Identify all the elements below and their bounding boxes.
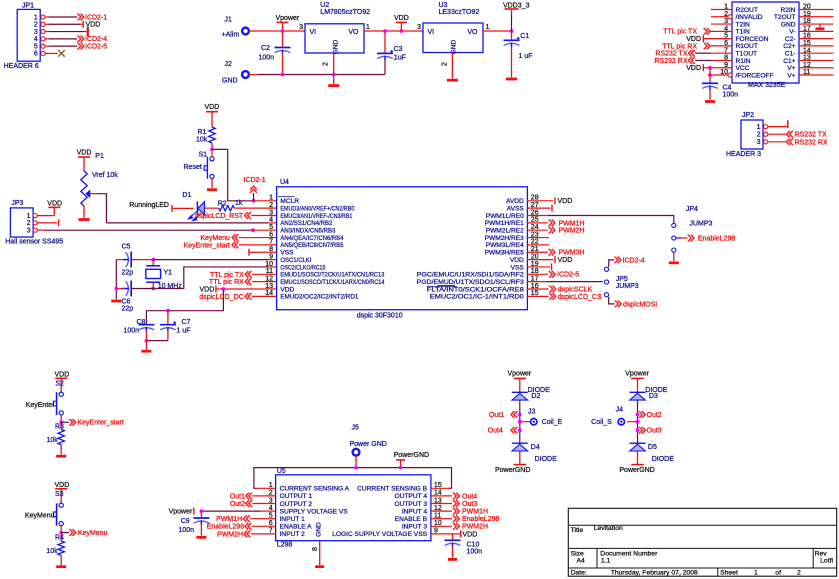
U1 pin18 GND stub xyxy=(799,23,834,25)
svg-text:PWM1H: PWM1H xyxy=(462,509,488,516)
wire C7 bottom to C8 bottom xyxy=(146,340,168,342)
wire pin17 to JP5 xyxy=(527,281,547,283)
svg-text:1uF: 1uF xyxy=(394,54,406,61)
off-page RS232 TX at JP2 xyxy=(786,131,789,138)
svg-text:INPUT 2: INPUT 2 xyxy=(280,531,305,538)
svg-text:AN2/SS1/CN4/RB2: AN2/SS1/CN4/RB2 xyxy=(280,220,332,227)
svg-text:100n: 100n xyxy=(723,92,739,99)
svg-text:R2: R2 xyxy=(218,200,227,207)
ground below S1 xyxy=(207,188,217,191)
svg-text:of: of xyxy=(775,569,781,576)
svg-text:KeyEnter: KeyEnter xyxy=(26,402,55,409)
svg-text:ENABLE B: ENABLE B xyxy=(395,516,428,523)
off-page Out3 at J4 xyxy=(636,428,640,432)
off-page EnableL298 at U5 pin11 xyxy=(431,518,452,520)
off-page EnableL298 at JP4 xyxy=(688,235,691,242)
svg-text:U5: U5 xyxy=(277,468,286,475)
svg-text:R2OUT: R2OUT xyxy=(736,7,758,14)
svg-text:PWM2H: PWM2H xyxy=(559,228,585,235)
svg-text:VDD: VDD xyxy=(686,36,701,43)
svg-text:C8: C8 xyxy=(137,319,146,326)
svg-text:VDD: VDD xyxy=(47,200,62,207)
JP1 pin 5 circle xyxy=(41,44,45,48)
diode D5 xyxy=(630,442,646,444)
wire J1 to U2 VI xyxy=(249,30,305,32)
svg-text:SUPPLY VOLTAGE VS: SUPPLY VOLTAGE VS xyxy=(280,508,349,515)
svg-text:Out4: Out4 xyxy=(488,428,503,435)
svg-text:1.1: 1.1 xyxy=(601,557,611,564)
svg-text:Out3: Out3 xyxy=(462,501,477,508)
capacitor C8 xyxy=(145,311,147,325)
svg-text:C1+: C1+ xyxy=(783,58,795,65)
ground at pin18 xyxy=(819,24,821,27)
power VDD at pin20 xyxy=(527,259,553,261)
U1 pin10 stub with bubble xyxy=(711,74,728,76)
svg-text:DIODE: DIODE xyxy=(535,456,558,463)
svg-text:S2: S2 xyxy=(55,380,64,387)
wire JP1-2 to VDD xyxy=(45,23,49,25)
wire Vpower to U5 pin4 xyxy=(201,510,260,512)
svg-text:4: 4 xyxy=(34,36,38,43)
svg-text:R4: R4 xyxy=(55,534,64,541)
svg-text:FLTA/INT0/SCK1/OCFA/RE8: FLTA/INT0/SCK1/OCFA/RE8 xyxy=(427,286,524,293)
LED D1 xyxy=(196,201,198,215)
svg-text:Title: Title xyxy=(571,527,584,534)
svg-text:INPUT 4: INPUT 4 xyxy=(402,508,427,515)
off-page KeyMenu xyxy=(61,532,69,534)
svg-text:1: 1 xyxy=(757,124,761,131)
power bar AVSS at pin27 xyxy=(527,207,550,209)
svg-text:Y1: Y1 xyxy=(164,269,173,276)
svg-text:KeyMenu: KeyMenu xyxy=(200,235,230,242)
capacitor C2 xyxy=(282,31,284,47)
svg-text:C3: C3 xyxy=(394,46,403,53)
svg-text:ICD2-5: ICD2-5 xyxy=(85,44,107,51)
ground below R3 xyxy=(56,455,66,458)
svg-text:Vpower: Vpower xyxy=(508,371,532,378)
off-page ICD2-5 at pin18 xyxy=(527,273,548,275)
wire P1 wiper to pin4 row xyxy=(90,193,96,195)
wire J5 stem xyxy=(355,456,357,468)
off-page PWM2H at U5 pin10 xyxy=(431,525,452,527)
underline EMUD pin17 xyxy=(438,284,456,286)
svg-text:dspic 30F3010: dspic 30F3010 xyxy=(357,312,403,319)
svg-text:RS232 RX: RS232 RX xyxy=(795,139,828,146)
diode D4 xyxy=(512,442,528,444)
svg-text:EMUD3/AN0/VREF+/CN2/RB0: EMUD3/AN0/VREF+/CN2/RB0 xyxy=(280,205,354,212)
svg-text:EMUC3/AN1/VREF-/CN3/RB1: EMUC3/AN1/VREF-/CN3/RB1 xyxy=(280,213,352,220)
svg-text:KeyEnter_start: KeyEnter_start xyxy=(184,242,230,249)
off-page Out2 at J4 xyxy=(636,413,640,417)
svg-text:PWM1H: PWM1H xyxy=(559,220,585,227)
wire JP1-3 to VDD bar xyxy=(45,31,49,33)
ground below C10 xyxy=(448,558,457,561)
title block frame xyxy=(568,508,836,576)
svg-text:LM7805czTO92: LM7805czTO92 xyxy=(320,9,370,16)
svg-text:11: 11 xyxy=(266,268,273,275)
svg-text:Thursday, February 07, 2008: Thursday, February 07, 2008 xyxy=(611,569,698,576)
capacitor C6 xyxy=(126,281,129,296)
svg-text:CURRENT SENSING A: CURRENT SENSING A xyxy=(280,486,350,493)
svg-text:VDD: VDD xyxy=(55,371,70,378)
svg-text:RunningLED: RunningLED xyxy=(129,202,169,209)
off-page ICD2-1 xyxy=(77,14,80,21)
U3 pin2 GND stem xyxy=(451,53,453,79)
svg-text:INPUT 3: INPUT 3 xyxy=(402,524,427,531)
capacitor C7 xyxy=(167,311,169,325)
svg-text:1 uF: 1 uF xyxy=(177,327,191,334)
svg-text:1: 1 xyxy=(27,213,31,220)
svg-text:8: 8 xyxy=(269,246,273,253)
wire JP5-1 to ICD2-4 xyxy=(609,260,615,267)
U5 pin8 GND stem xyxy=(319,541,321,565)
power bar at JP1-3 xyxy=(87,27,89,36)
ground below C4 xyxy=(705,100,715,103)
svg-text:4: 4 xyxy=(269,217,273,224)
svg-text:C2+: C2+ xyxy=(783,43,795,50)
svg-text:2: 2 xyxy=(757,132,761,139)
svg-text:R1: R1 xyxy=(198,129,207,136)
overline MCLR xyxy=(278,196,295,198)
svg-text:R1OUT: R1OUT xyxy=(736,43,758,50)
svg-text:P1: P1 xyxy=(95,153,104,160)
svg-text:+Alim: +Alim xyxy=(222,32,240,39)
ground below U3 xyxy=(447,79,458,82)
svg-text:OUTPUT 2: OUTPUT 2 xyxy=(280,501,313,508)
svg-text:EnableL298: EnableL298 xyxy=(207,524,244,531)
JP1 pin 4 circle xyxy=(41,37,45,41)
junction crystal bottom xyxy=(151,287,155,291)
svg-text:10k: 10k xyxy=(46,548,58,555)
svg-text:JP3: JP3 xyxy=(11,200,23,207)
wire JP3-3 stub xyxy=(37,229,45,231)
svg-text:VI: VI xyxy=(310,29,317,36)
svg-text:S3: S3 xyxy=(55,491,64,498)
svg-text:Out1: Out1 xyxy=(489,412,504,419)
svg-text:1 uF: 1 uF xyxy=(519,53,533,60)
svg-text:T1IN: T1IN xyxy=(736,29,751,36)
ground below U5 pin8 xyxy=(315,565,324,568)
svg-text:VDD: VDD xyxy=(55,482,70,489)
power VDD at JP1-2 xyxy=(82,21,84,28)
svg-text:JP2: JP2 xyxy=(742,112,754,119)
junction KeyEnter_start xyxy=(59,420,63,424)
off-page ICD2-5 xyxy=(77,43,80,50)
svg-text:PWM2H: PWM2H xyxy=(462,524,488,531)
svg-text:VDD: VDD xyxy=(686,65,701,72)
wire D1 to R2 xyxy=(205,207,219,209)
svg-text:C2: C2 xyxy=(261,45,270,52)
svg-text:MCLR: MCLR xyxy=(280,198,299,205)
junction R1/S1 xyxy=(210,148,214,152)
off-page dspicLCD_CS at pin15 xyxy=(527,295,548,297)
svg-text:100n: 100n xyxy=(179,527,195,534)
JP3 pin circle xyxy=(33,221,37,225)
svg-text:S1: S1 xyxy=(199,152,208,159)
svg-text:R1IN: R1IN xyxy=(736,58,751,65)
wire JP2-3 RS232 RX xyxy=(768,141,786,143)
svg-text:VDD: VDD xyxy=(77,150,92,157)
off-page PWM1H at pin25 xyxy=(527,222,547,224)
wire R1 to U4 MCLR xyxy=(212,149,254,200)
svg-text:10k: 10k xyxy=(196,137,208,144)
svg-text:D1: D1 xyxy=(182,192,191,199)
svg-text:/INVALID: /INVALID xyxy=(736,14,763,21)
wire P1 wiper to U4 pin4 xyxy=(106,222,268,224)
svg-text:dspicMOSI: dspicMOSI xyxy=(623,301,657,308)
svg-text:HEADER 6: HEADER 6 xyxy=(4,63,39,70)
JP2 pin circle xyxy=(764,140,768,144)
svg-text:C2-: C2- xyxy=(785,36,796,43)
connector JP1 xyxy=(17,9,40,61)
svg-text:100n: 100n xyxy=(467,548,483,555)
svg-text:2: 2 xyxy=(442,62,449,66)
svg-text:J3: J3 xyxy=(528,409,536,416)
PowerGND below D4 xyxy=(519,451,521,464)
svg-text:Out1: Out1 xyxy=(230,493,245,500)
wire VDD to C7 C8 xyxy=(146,289,223,311)
svg-text:OUTPUT 4: OUTPUT 4 xyxy=(395,493,428,500)
svg-text:22p: 22p xyxy=(122,306,134,313)
svg-text:J2: J2 xyxy=(225,61,233,68)
JP3 pin circle xyxy=(33,214,37,218)
svg-text:8: 8 xyxy=(312,547,319,551)
svg-text:C10: C10 xyxy=(467,541,480,548)
off-page dspicLCD_RST at pin3 xyxy=(244,212,247,219)
off-page PWM3H at pin21 xyxy=(527,251,547,253)
svg-text:Out3: Out3 xyxy=(647,428,662,435)
resistor R1 xyxy=(209,127,215,143)
capacitor C4 xyxy=(702,82,718,84)
wire JP2-2 RS232 TX xyxy=(768,133,786,135)
svg-text:3: 3 xyxy=(269,209,273,216)
capacitor C9 xyxy=(200,511,202,518)
JP1 pin 2 circle xyxy=(41,22,45,26)
JP2 pin circle xyxy=(764,125,768,129)
svg-text:3: 3 xyxy=(757,139,761,146)
junction KeyMenu xyxy=(59,531,63,535)
svg-text:JP4: JP4 xyxy=(686,206,698,213)
off-page TTL pic TX at pin11 xyxy=(245,271,248,278)
svg-text:GND: GND xyxy=(333,39,340,54)
svg-text:Vpower: Vpower xyxy=(169,509,193,516)
svg-text:VCC: VCC xyxy=(736,65,750,72)
wire D3 to J4 node xyxy=(637,400,639,443)
svg-text:1: 1 xyxy=(754,569,758,576)
svg-text:Out2: Out2 xyxy=(647,412,662,419)
wire crystal to OSC2 xyxy=(132,267,268,289)
off-page KeyEnter_start at pin7 xyxy=(232,242,235,249)
svg-text:T2IN: T2IN xyxy=(736,21,751,28)
svg-text:T2OUT: T2OUT xyxy=(774,14,796,21)
svg-text:C7: C7 xyxy=(182,319,191,326)
svg-text:1: 1 xyxy=(269,195,273,202)
off-page PWM1H at U5 pin12 xyxy=(431,510,452,512)
svg-text:Sheet: Sheet xyxy=(720,569,738,576)
svg-text:AN3/INDX/CN5/RB3: AN3/INDX/CN5/RB3 xyxy=(280,228,335,235)
svg-text:ICD2-1: ICD2-1 xyxy=(85,14,107,21)
svg-text:PWM2H/RE3: PWM2H/RE3 xyxy=(485,235,525,242)
svg-text:Out4: Out4 xyxy=(462,493,477,500)
svg-text:5: 5 xyxy=(269,224,273,231)
diode D2 xyxy=(512,391,528,393)
U5 pin15 stub xyxy=(431,487,452,489)
svg-text:VSS: VSS xyxy=(511,264,525,271)
svg-text:ICD2-4: ICD2-4 xyxy=(85,36,107,43)
svg-text:A4: A4 xyxy=(577,557,586,564)
svg-text:GND: GND xyxy=(781,21,796,28)
JP3 pin circle xyxy=(33,228,37,232)
ground below R4 xyxy=(56,565,66,568)
svg-text:2: 2 xyxy=(797,569,801,576)
svg-text:T1OUT: T1OUT xyxy=(736,50,758,57)
wire to LED D1 xyxy=(172,207,194,209)
wire JP2-1 to power bar xyxy=(768,126,788,128)
IC U5 L298 xyxy=(276,475,431,541)
svg-text:PWM1H: PWM1H xyxy=(216,516,242,523)
power bar VSS at pin8 xyxy=(248,249,250,256)
capacitor C10 xyxy=(452,534,454,540)
svg-text:VDD: VDD xyxy=(280,286,294,293)
wire JP5-3 to dspicMOSI xyxy=(609,297,615,304)
wire U3 VO to VDD3_3 xyxy=(483,30,512,32)
svg-text:LE33czTO92: LE33czTO92 xyxy=(439,9,480,16)
svg-text:100n: 100n xyxy=(259,55,275,62)
IC U1 MAX3235E xyxy=(732,2,799,83)
wire JP1-5 to ICD2-5 xyxy=(45,45,49,47)
svg-text:C1-: C1- xyxy=(785,50,796,57)
svg-text:FORCEON: FORCEON xyxy=(736,36,769,43)
svg-text:2: 2 xyxy=(269,202,273,209)
svg-text:1: 1 xyxy=(366,24,370,31)
off-page ICD2-4 at JP5 xyxy=(615,257,618,264)
svg-text:PWM1H/RE1: PWM1H/RE1 xyxy=(485,220,525,227)
svg-text:EnableL298: EnableL298 xyxy=(462,516,499,523)
svg-text:DIODE: DIODE xyxy=(652,456,675,463)
svg-text:VO: VO xyxy=(348,29,359,36)
svg-text:22p: 22p xyxy=(122,269,134,276)
off-page dspicMOSI at JP5 xyxy=(615,301,618,308)
svg-text:dspicLCD_CS: dspicLCD_CS xyxy=(558,294,602,301)
svg-text:6: 6 xyxy=(34,51,38,58)
power VDD at U5 pin9 xyxy=(431,533,461,535)
svg-text:Hall sensor SS495: Hall sensor SS495 xyxy=(5,239,63,246)
diode D3 xyxy=(630,391,646,393)
svg-text:2: 2 xyxy=(34,22,38,29)
svg-text:C5: C5 xyxy=(122,244,131,251)
svg-text:PWM1L/RE0: PWM1L/RE0 xyxy=(486,213,524,220)
svg-text:GND: GND xyxy=(451,39,458,54)
svg-text:RS232 RX: RS232 RX xyxy=(654,58,687,65)
svg-text:VDD: VDD xyxy=(510,257,524,264)
connector JP3 Hall sensor xyxy=(10,208,33,237)
U1 pin3 stub xyxy=(711,23,732,25)
power bar at JP3-2 xyxy=(58,219,60,226)
wire OSC1 row xyxy=(132,259,153,261)
svg-text:KeyMenu: KeyMenu xyxy=(78,530,108,537)
svg-text:V-: V- xyxy=(789,29,795,36)
svg-text:MAX 3235E: MAX 3235E xyxy=(748,82,786,89)
svg-text:3: 3 xyxy=(417,24,421,31)
wire VCC to C4 xyxy=(709,68,711,83)
svg-text:dspicLCD_RST: dspicLCD_RST xyxy=(195,213,244,220)
svg-text:PWM3H/RE5: PWM3H/RE5 xyxy=(485,250,525,257)
capacitor C3 xyxy=(384,31,386,53)
svg-text:C9: C9 xyxy=(181,518,190,525)
svg-text:AVDD: AVDD xyxy=(506,198,524,205)
svg-text:EMUC1/SOSCO/T1CK/U1ARX/CN0/RC1: EMUC1/SOSCO/T1CK/U1ARX/CN0/RC14 xyxy=(280,279,384,286)
svg-text:10k: 10k xyxy=(47,437,59,444)
svg-text:D5: D5 xyxy=(648,444,657,451)
power bar at JP2-1 xyxy=(787,120,789,128)
capacitor C1 xyxy=(511,31,513,40)
svg-text:Vref 10k: Vref 10k xyxy=(92,172,118,179)
overline FLTA INT0 pin16 xyxy=(427,285,457,287)
svg-text:EMUD1/SOSCI/T2CK/U1ATX/CN1/RC1: EMUD1/SOSCI/T2CK/U1ATX/CN1/RC13 xyxy=(280,272,384,279)
JP2 pin circle xyxy=(764,132,768,136)
svg-text:PWM3H: PWM3H xyxy=(559,250,585,257)
svg-text:U3: U3 xyxy=(439,2,448,9)
svg-text:VDD: VDD xyxy=(200,287,215,294)
svg-text:Coil_S: Coil_S xyxy=(591,419,612,426)
svg-text:13: 13 xyxy=(265,283,273,290)
resistor R2 xyxy=(219,205,235,210)
ground below C9 xyxy=(196,536,206,539)
svg-text:PGC/EMUC/U1RX/SDI1/SDA/RF2: PGC/EMUC/U1RX/SDI1/SDA/RF2 xyxy=(417,272,524,279)
wire JP3-3 to U4 pin5 xyxy=(45,229,253,231)
svg-text:C4: C4 xyxy=(723,85,732,92)
svg-text:EnableL298: EnableL298 xyxy=(698,236,735,243)
regulator U3 LE33 xyxy=(423,23,483,53)
svg-text:9: 9 xyxy=(269,253,273,260)
off-page Out1 at J3 xyxy=(518,413,522,417)
off-page dspicLCD_DC at pin14 xyxy=(245,293,248,300)
svg-text:ENABLE A: ENABLE A xyxy=(280,524,312,531)
off-page Out4 at U5 pin14 xyxy=(431,495,452,497)
svg-text:AVSS: AVSS xyxy=(507,205,525,212)
svg-text:Out2: Out2 xyxy=(230,501,245,508)
off-page dspicSCLK at pin16 xyxy=(527,288,548,290)
svg-text:VI: VI xyxy=(428,29,435,36)
svg-text:Vpower: Vpower xyxy=(276,15,300,22)
U5 pin1 stub xyxy=(257,487,275,489)
wire JP3-1 xyxy=(37,215,54,217)
ground below C1 xyxy=(506,78,517,81)
wire pin26 to JP4 xyxy=(527,215,547,217)
svg-text:JP1: JP1 xyxy=(22,3,34,10)
svg-text:VDD: VDD xyxy=(558,198,573,205)
svg-text:PWM2L/RE2: PWM2L/RE2 xyxy=(486,228,524,235)
power VDD at pin28 xyxy=(527,200,553,202)
svg-text:1: 1 xyxy=(34,14,38,21)
svg-text:PWM3L/RE4: PWM3L/RE4 xyxy=(486,242,524,249)
svg-text:3: 3 xyxy=(34,29,38,36)
U2 pin2 GND stem xyxy=(333,53,335,75)
off-page KeyEnter_start xyxy=(61,421,69,423)
svg-text:VDD: VDD xyxy=(463,531,478,538)
svg-text:7: 7 xyxy=(269,239,273,246)
svg-text:RS232 TX: RS232 TX xyxy=(795,132,827,139)
svg-text:GND: GND xyxy=(315,522,322,537)
wire U2 VO to U3 VI xyxy=(364,30,423,32)
svg-text:OSC1/CLKI: OSC1/CLKI xyxy=(280,257,311,264)
svg-text:ICD2-5: ICD2-5 xyxy=(557,272,579,279)
svg-text:100n: 100n xyxy=(124,327,140,334)
svg-text:14: 14 xyxy=(265,290,273,297)
JP1 pin 3 circle xyxy=(41,29,45,33)
stub pin22 xyxy=(527,244,549,246)
wire JP4-2 to EnableL298 xyxy=(676,237,681,239)
